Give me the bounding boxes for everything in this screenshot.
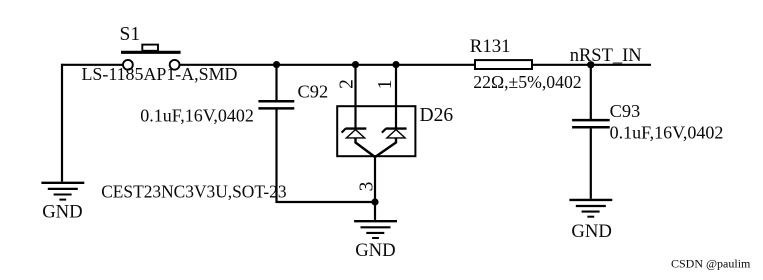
junction at nRST_IN / C93 branch: [587, 61, 594, 68]
wire: D26 pin 1 lead: [395, 65, 397, 129]
wire: C92 lower lead down to bottom net: [275, 108, 277, 203]
svg-text:R131: R131: [470, 36, 511, 57]
svg-text:GND: GND: [571, 221, 612, 242]
svg-text:LS-1185AP1-A,SMD: LS-1185AP1-A,SMD: [82, 64, 238, 84]
wire: C93 lower lead down to ground: [590, 127, 592, 199]
svg-text:nRST_IN: nRST_IN: [570, 46, 642, 66]
svg-text:0.1uF,16V,0402: 0.1uF,16V,0402: [140, 106, 254, 126]
svg-text:CEST23NC3V3U,SOT-23: CEST23NC3V3U,SOT-23: [101, 181, 287, 201]
wire: C93 upper lead: [590, 65, 592, 121]
switch S1: [121, 45, 181, 70]
wire: bottom net from C92 to D26 pin 3: [277, 201, 376, 203]
junction at D26 pin 2: [352, 61, 359, 68]
junction at D26 pin 1: [392, 61, 399, 68]
D26 right zener diode: [375, 129, 407, 157]
svg-text:1: 1: [375, 80, 396, 90]
wire: D26 pin 2 lead: [354, 65, 356, 129]
svg-text:CSDN @paulim: CSDN @paulim: [671, 257, 751, 271]
junction at C92 branch: [273, 61, 280, 68]
capacitor C93: [572, 120, 610, 127]
svg-text:22Ω,±5%,0402: 22Ω,±5%,0402: [473, 72, 581, 92]
wire: top net, segment from R131 to right end: [533, 64, 651, 66]
svg-text:0.1uF,16V,0402: 0.1uF,16V,0402: [610, 123, 724, 143]
svg-text:2: 2: [337, 79, 358, 89]
svg-text:GND: GND: [355, 240, 396, 261]
wire: C92 upper lead: [275, 65, 277, 102]
dual zener diode D26 body box: [337, 106, 415, 156]
wire: top net, segment from S1 right terminal to R131: [180, 64, 475, 66]
junction at D26 pin 3 / ground branch: [371, 198, 378, 205]
wire: top net, left segment from GND corner to S1 left terminal: [62, 64, 123, 66]
wire: D26 pin 3 lead down to ground: [374, 156, 376, 220]
wire: left vertical down to ground: [61, 64, 63, 182]
svg-text:S1: S1: [120, 24, 141, 45]
ground GND (under D26 pin 3): [354, 221, 397, 261]
ground GND (under C93): [569, 200, 612, 242]
resistor R131: [475, 60, 532, 69]
svg-text:GND: GND: [42, 202, 82, 223]
D26 left zener diode: [342, 129, 375, 157]
svg-text:D26: D26: [420, 105, 454, 126]
ground GND (left): [41, 183, 84, 223]
svg-text:C93: C93: [610, 101, 641, 121]
capacitor C92: [258, 101, 294, 108]
svg-text:C92: C92: [298, 81, 329, 101]
svg-text:3: 3: [356, 182, 377, 192]
